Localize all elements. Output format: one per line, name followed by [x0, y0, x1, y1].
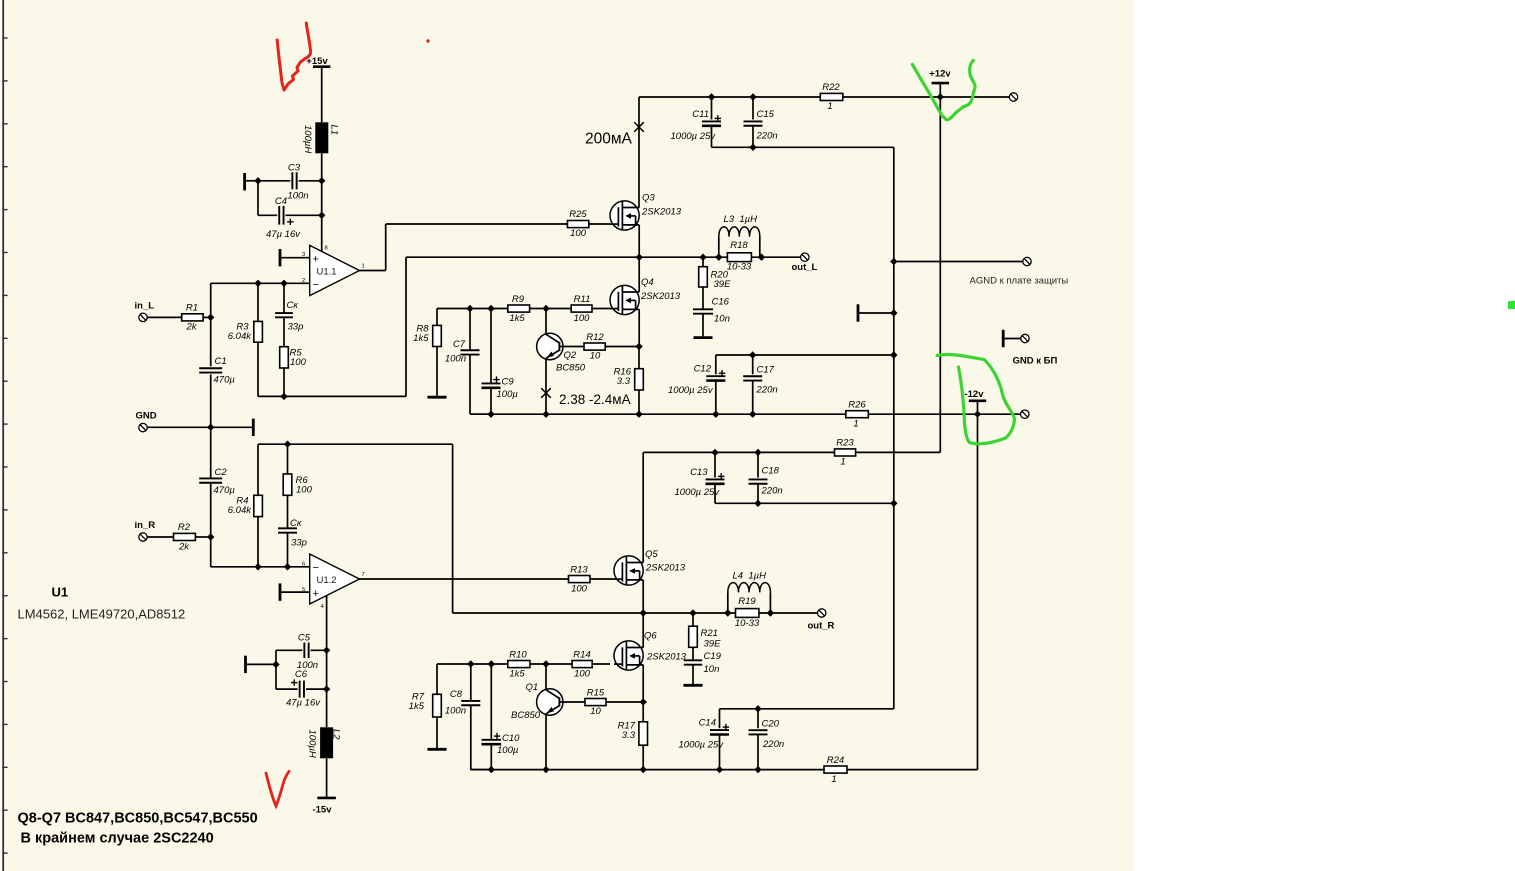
wire AGND — [894, 261, 1023, 263]
svg-text:220n: 220n — [762, 739, 784, 750]
svg-text:-15v: -15v — [312, 805, 332, 816]
svg-text:R11: R11 — [574, 294, 591, 305]
node in_L — [207, 314, 214, 321]
svg-text:100: 100 — [570, 228, 587, 239]
capacitor C16 — [693, 287, 730, 325]
wire R4 bottom — [257, 517, 259, 567]
svg-text:C18: C18 — [762, 466, 780, 477]
node C20 top — [754, 705, 761, 712]
wire to U1.1 pin 8 — [322, 215, 328, 252]
node C18 bottom — [754, 500, 761, 507]
svg-text:C2: C2 — [215, 467, 228, 478]
node C8 top — [467, 660, 474, 667]
svg-text:R22: R22 — [822, 82, 840, 93]
wire C11 bottom — [711, 126, 713, 148]
wire Q3 source — [638, 225, 640, 257]
mosfet Q5 — [614, 549, 686, 585]
svg-text:10-33: 10-33 — [727, 262, 752, 273]
connector GND BP — [1021, 334, 1029, 342]
wire Q3 drain — [638, 97, 640, 208]
svg-text:1000µ 25v: 1000µ 25v — [679, 740, 725, 751]
svg-text:47µ 16v: 47µ 16v — [286, 697, 321, 708]
svg-text:R2: R2 — [178, 522, 191, 533]
node C9 rail — [487, 411, 494, 418]
capacitor C3 — [258, 163, 322, 202]
node L4 right — [767, 609, 774, 616]
svg-text:C4: C4 — [275, 196, 287, 207]
resistor R7 — [409, 664, 442, 717]
wire C2 to in_R node — [210, 483, 212, 537]
svg-text:+: + — [313, 253, 319, 265]
wire Q6 source — [642, 665, 644, 702]
svg-text:Q8-Q7 BC847,BC850,BC547,BC550: Q8-Q7 BC847,BC850,BC547,BC550 — [18, 811, 258, 827]
wire R8 to ground — [436, 347, 438, 397]
wire C14-C20 top — [720, 708, 894, 710]
resistor R15 — [559, 687, 643, 717]
node C3 top — [318, 177, 325, 184]
capacitor C11 — [671, 97, 722, 142]
resistor R22 — [820, 82, 843, 112]
svg-text:100µH: 100µH — [307, 730, 318, 758]
node R21 top — [689, 609, 696, 616]
wire GND node to C2 — [210, 427, 212, 478]
ground flag GND BP — [1003, 330, 1021, 347]
wire center column upper — [210, 283, 212, 366]
svg-text:6.04k: 6.04k — [228, 331, 252, 342]
wire R23 to Q5 drain — [643, 451, 940, 453]
svg-text:Q5: Q5 — [645, 549, 658, 560]
wire -12v rail down — [977, 414, 979, 769]
svg-text:10-33: 10-33 — [735, 618, 760, 629]
connector +12v — [1009, 93, 1017, 101]
wire U1.2 output — [360, 578, 569, 580]
svg-text:39E: 39E — [714, 279, 732, 290]
svg-text:470µ: 470µ — [214, 485, 236, 496]
svg-text:33p: 33p — [288, 322, 304, 333]
green marker loop — [937, 355, 1015, 444]
resistor R21 — [689, 613, 721, 649]
svg-text:BC850: BC850 — [556, 363, 586, 374]
svg-text:100: 100 — [290, 357, 307, 368]
node R12 right — [635, 343, 642, 350]
svg-text:1000µ 25v: 1000µ 25v — [668, 385, 714, 396]
node L3 right — [758, 254, 765, 261]
resistor R8 — [413, 309, 441, 347]
mosfet Q4 — [610, 277, 681, 315]
svg-text:1k5: 1k5 — [509, 668, 525, 679]
resistor R9 — [508, 294, 530, 324]
svg-text:200мА: 200мА — [585, 131, 633, 148]
svg-text:1k5: 1k5 — [409, 701, 425, 712]
svg-text:7: 7 — [362, 572, 365, 578]
svg-text:1: 1 — [853, 419, 858, 430]
svg-text:C1: C1 — [215, 356, 227, 367]
red marker dot — [426, 39, 429, 42]
capacitor C1 — [199, 356, 235, 386]
svg-text:220n: 220n — [761, 486, 783, 497]
node C6 — [323, 685, 330, 692]
x marker top — [634, 122, 644, 132]
node L4 left — [724, 609, 731, 616]
svg-text:L3 1µH: L3 1µH — [724, 214, 758, 225]
svg-text:Ск: Ск — [287, 300, 299, 311]
svg-text:in_R: in_R — [135, 520, 156, 531]
wire C19 to ground — [692, 665, 694, 684]
text AGND — [970, 276, 1069, 287]
wire feedback vertical — [405, 257, 407, 396]
op-amp U1.1 — [302, 245, 365, 295]
node Ck bottom — [284, 563, 291, 570]
resistor R17 — [618, 702, 648, 745]
node R17 rail — [640, 766, 647, 773]
svg-text:C15: C15 — [757, 109, 775, 120]
svg-text:10: 10 — [590, 706, 601, 717]
svg-text:U1.1: U1.1 — [317, 267, 337, 278]
svg-text:C20: C20 — [762, 719, 780, 730]
svg-text:1000µ 25v: 1000µ 25v — [671, 131, 717, 142]
mosfet Q3 — [610, 193, 682, 231]
svg-text:C6: C6 — [295, 669, 308, 680]
wire node to C4 node — [321, 181, 323, 216]
svg-text:2SK2013: 2SK2013 — [645, 563, 686, 574]
wire +12v down to R23 — [939, 97, 941, 452]
capacitor C20 — [749, 709, 785, 750]
wire R14 to Q6 gate — [592, 663, 610, 665]
node C13 top — [711, 449, 718, 456]
svg-text:C8: C8 — [450, 689, 463, 700]
wire lower negative rail — [471, 769, 978, 771]
svg-text:U1: U1 — [52, 585, 69, 600]
svg-text:1: 1 — [840, 457, 845, 468]
text v krainem — [21, 831, 214, 847]
wire C10 to rail — [490, 744, 492, 769]
wire source rail R — [643, 612, 817, 614]
svg-text:100: 100 — [296, 484, 313, 495]
svg-text:10: 10 — [590, 351, 601, 362]
svg-text:6.04k: 6.04k — [228, 505, 252, 516]
svg-text:L1: L1 — [329, 125, 340, 136]
svg-text:in_L: in_L — [135, 301, 155, 312]
svg-text:R25: R25 — [569, 209, 587, 220]
resistor R3 — [228, 283, 263, 342]
wire C3 node down — [257, 181, 259, 216]
wire L1 to node — [321, 153, 323, 181]
svg-text:C9: C9 — [502, 377, 515, 388]
svg-text:2k: 2k — [178, 542, 190, 553]
svg-text:220n: 220n — [756, 131, 778, 142]
svg-text:R23: R23 — [836, 438, 854, 449]
svg-text:100µH: 100µH — [302, 125, 313, 153]
red marker check bottom — [266, 771, 289, 806]
svg-text:R19: R19 — [738, 596, 756, 607]
svg-text:8: 8 — [325, 246, 328, 252]
svg-text:100n: 100n — [445, 354, 466, 365]
wire C8 to rail — [471, 705, 492, 769]
wire C13 bottom — [714, 484, 716, 504]
resistor R13 — [569, 564, 615, 594]
svg-text:1: 1 — [831, 774, 836, 785]
node -12v — [974, 411, 981, 418]
svg-text:C13: C13 — [690, 467, 708, 478]
wire C9 to rail — [490, 388, 492, 414]
svg-text:2SK2013: 2SK2013 — [640, 291, 681, 302]
node C14 rail — [716, 766, 723, 773]
capacitor C5 — [276, 632, 327, 671]
resistor R6 — [283, 444, 312, 495]
node feedback bottom — [280, 393, 287, 400]
wire R6-Ck — [287, 495, 289, 528]
svg-text:33p: 33p — [291, 538, 307, 549]
node Q2 rail — [542, 411, 549, 418]
node Q1 collector — [542, 660, 549, 667]
ground bar C16 — [694, 336, 713, 339]
capacitor C8 — [445, 664, 480, 717]
svg-text:Q6: Q6 — [644, 631, 657, 642]
ground bar R8 — [428, 396, 447, 399]
resistor R18 — [727, 240, 752, 273]
wire C18 bottom — [757, 484, 759, 504]
text bias current — [559, 392, 631, 407]
capacitor C12 — [668, 355, 725, 396]
resistor R16 — [614, 347, 644, 391]
capacitor C6 — [276, 669, 327, 709]
wire Q5 drain — [642, 452, 644, 562]
node R20 top — [699, 254, 706, 261]
svg-text:1000µ 25v: 1000µ 25v — [675, 487, 721, 498]
svg-text:100µ: 100µ — [497, 745, 519, 756]
svg-text:Q1: Q1 — [526, 682, 539, 693]
connector in_R — [135, 520, 156, 541]
node mid vertical C12 — [890, 351, 897, 358]
capacitor C4 — [258, 196, 322, 240]
node R4 bottom — [254, 563, 261, 570]
wire L2 to -15v — [326, 758, 328, 798]
capacitor C17 — [743, 355, 777, 396]
wire mid vertical — [893, 147, 895, 709]
power +12v — [929, 69, 951, 98]
resistor R5 — [280, 347, 307, 368]
svg-text:+12v: +12v — [929, 69, 951, 80]
op-amp U1.2 — [302, 554, 365, 610]
wire C13-C18 bottom — [715, 502, 894, 504]
text Q8-Q7 — [18, 811, 258, 827]
wire C16 to ground — [702, 314, 704, 337]
wire C20 bottom — [757, 735, 759, 770]
svg-text:R14: R14 — [573, 649, 590, 660]
node C15 top — [749, 93, 756, 100]
svg-text:C14: C14 — [699, 717, 716, 728]
svg-text:10n: 10n — [714, 314, 730, 325]
wire in_L to R1 — [147, 316, 182, 318]
wire U1.2 power pin — [326, 596, 328, 651]
resistor R1 — [182, 303, 203, 333]
node C12 rail — [712, 411, 719, 418]
wire Q6 drain — [642, 613, 644, 648]
svg-text:100n: 100n — [445, 706, 466, 717]
node C5 — [323, 647, 330, 654]
wire R22 to +12v — [843, 96, 1010, 98]
wire Q1 emitter — [545, 714, 547, 770]
connector out_R — [808, 609, 835, 632]
wire R3 bottom — [257, 342, 259, 396]
red marker scribble top — [277, 23, 310, 90]
svg-text:Q3: Q3 — [642, 193, 655, 204]
svg-text:−: − — [313, 279, 319, 291]
wire source rail L — [639, 256, 800, 258]
svg-text:3.3: 3.3 — [617, 376, 631, 387]
svg-text:R12: R12 — [586, 332, 604, 343]
svg-text:AGND к плате защиты: AGND к плате защиты — [970, 276, 1069, 287]
resistor R2 — [174, 522, 196, 553]
resistor R4 — [228, 444, 263, 516]
node L3 left — [715, 254, 722, 261]
capacitor C19 — [684, 647, 722, 675]
wire R9-R11 — [530, 308, 572, 310]
ground bar R7 — [428, 748, 447, 751]
node Q2 collector — [542, 305, 549, 312]
node C10 rail — [488, 766, 495, 773]
svg-text:R26: R26 — [848, 400, 866, 411]
mosfet Q6 — [614, 631, 687, 671]
ground flag U1.2 +input — [280, 583, 310, 600]
svg-text:2.38 -2.4мА: 2.38 -2.4мА — [559, 392, 631, 407]
node C4 — [318, 212, 325, 219]
ground bar C19 — [684, 684, 703, 687]
svg-text:C19: C19 — [704, 651, 722, 662]
svg-text:1k5: 1k5 — [509, 313, 525, 324]
svg-text:39E: 39E — [704, 638, 722, 649]
wire C11-C15 bottom rail — [712, 146, 894, 148]
wire Q2 emitter — [545, 359, 547, 415]
x marker Q2 — [541, 388, 551, 398]
svg-text:C3: C3 — [288, 163, 301, 174]
svg-text:100: 100 — [571, 583, 588, 594]
svg-text:100: 100 — [574, 668, 591, 679]
resistor R10 — [508, 649, 530, 679]
svg-text:470µ: 470µ — [214, 375, 236, 386]
svg-text:2SK2013: 2SK2013 — [646, 652, 687, 663]
svg-text:R15: R15 — [587, 687, 605, 698]
node R3 top — [254, 280, 261, 287]
svg-text:C16: C16 — [712, 297, 730, 308]
wire feedback bottom — [258, 395, 406, 397]
svg-text:C12: C12 — [694, 364, 712, 375]
wire Q5 source — [642, 580, 644, 613]
capacitor C15 — [744, 97, 778, 142]
connector in_L — [135, 301, 155, 322]
resistor R20 — [699, 257, 731, 290]
wire upper negative rail — [470, 413, 1021, 415]
svg-text:U1.2: U1.2 — [317, 575, 337, 586]
wire center column lower — [211, 537, 310, 567]
node C17 top — [749, 351, 756, 358]
wire Ck bottom — [287, 533, 289, 567]
connector GND — [136, 410, 157, 432]
connector -12v — [1021, 410, 1029, 418]
node Ck top — [280, 280, 287, 287]
green marker dot right — [1508, 301, 1515, 309]
resistor R23 — [835, 438, 856, 468]
wire in_R to R2 — [147, 536, 173, 538]
node ground left — [272, 661, 279, 668]
wire R7 to ground — [436, 717, 438, 748]
svg-text:C7: C7 — [453, 339, 466, 350]
svg-text:L4 1µH: L4 1µH — [733, 571, 767, 582]
node C10 top — [488, 660, 495, 667]
resistor R11 — [571, 294, 592, 324]
node mid vertical C13 — [890, 500, 897, 507]
resistor R25 — [567, 209, 610, 239]
ground flag GND — [252, 419, 255, 436]
capacitor Ck left — [275, 283, 303, 332]
node R15 right — [640, 698, 647, 705]
transistor Q2 — [537, 309, 586, 374]
node C3 left — [254, 177, 261, 184]
wire gate line lower — [437, 663, 508, 665]
wire C17 bottom — [752, 381, 754, 415]
capacitor Ck right — [278, 518, 307, 549]
svg-text:R1: R1 — [186, 303, 198, 314]
svg-text:out_L: out_L — [792, 262, 818, 273]
svg-text:-12v: -12v — [964, 389, 984, 400]
svg-text:R13: R13 — [570, 564, 588, 575]
node C20 rail — [754, 766, 761, 773]
power +15v — [306, 56, 330, 67]
wire C12 bottom — [715, 381, 717, 415]
svg-text:R10: R10 — [509, 649, 527, 660]
svg-text:−: − — [313, 562, 319, 574]
node C11 top — [708, 93, 715, 100]
wire R16 to rail — [638, 390, 640, 414]
svg-text:R18: R18 — [730, 240, 748, 251]
capacitor C7 — [445, 309, 480, 365]
inductor L2 — [307, 727, 342, 758]
text opamp types — [18, 607, 186, 622]
wire lower feedback vertical — [452, 444, 454, 613]
svg-text:GND: GND — [136, 410, 157, 421]
wire R2 to node — [195, 536, 210, 538]
wire top rail — [639, 96, 820, 98]
svg-text:2k: 2k — [185, 322, 197, 333]
resistor R24 — [824, 755, 847, 785]
svg-text:3.3: 3.3 — [622, 730, 636, 741]
wire feedback to source rail — [406, 256, 639, 258]
node R6 top — [284, 441, 291, 448]
wire C6 to L2 — [326, 650, 328, 727]
node +12v — [937, 93, 944, 100]
resistor R19 — [735, 596, 760, 629]
node C15 bottom — [749, 144, 756, 151]
resistor R26 — [846, 400, 869, 430]
wire C1 to GND node — [210, 375, 212, 428]
svg-text:6: 6 — [302, 561, 305, 567]
wire Ck-R5 — [283, 317, 285, 346]
svg-text:BC850: BC850 — [511, 710, 541, 721]
resistor R12 — [559, 332, 639, 362]
node source rail L — [636, 254, 643, 261]
ground flag mid — [858, 304, 894, 321]
svg-text:В крайнем случае 2SC2240: В крайнем случае 2SC2240 — [21, 831, 214, 847]
node source rail R — [640, 609, 647, 616]
power -12v — [964, 389, 986, 414]
node C17 rail — [749, 411, 756, 418]
wire Q4 drain — [638, 257, 640, 292]
text 200mA — [585, 131, 633, 148]
svg-text:1: 1 — [827, 101, 832, 112]
node C9 top — [487, 305, 494, 312]
capacitor C10 — [482, 664, 521, 756]
wire C12-C17 top — [716, 354, 894, 356]
